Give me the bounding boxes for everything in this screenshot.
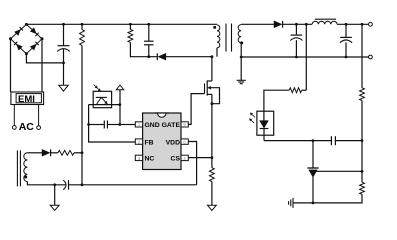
svg-text:EMI: EMI: [18, 94, 35, 105]
svg-text:GND: GND: [145, 122, 160, 129]
svg-text:FB: FB: [145, 139, 154, 146]
svg-text:CS: CS: [171, 156, 181, 163]
svg-text:AC: AC: [19, 121, 35, 133]
svg-text:VDD: VDD: [166, 139, 180, 146]
svg-text:GATE: GATE: [162, 122, 181, 129]
svg-text:NC: NC: [145, 156, 155, 163]
